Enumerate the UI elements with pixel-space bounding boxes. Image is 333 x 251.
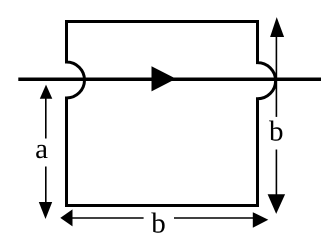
current direction arrowhead [152, 66, 177, 91]
svg-text:b: b [151, 207, 166, 239]
svg-text:a: a [35, 133, 48, 165]
dimension b right line [275, 36, 277, 195]
rectangular loop outline with notches [67, 22, 276, 206]
dimension b right up arrowhead [270, 17, 284, 37]
wire (main horizontal line) [18, 78, 321, 82]
dimension b bottom line [71, 217, 254, 219]
dimension a line [45, 97, 47, 203]
dimension a up arrowhead [40, 85, 53, 99]
svg-text:b: b [269, 116, 284, 148]
dimension b right down arrowhead [268, 194, 286, 214]
dimension a down arrowhead [39, 202, 52, 219]
dimension b bottom right arrowhead [253, 212, 268, 228]
dimension b bottom left arrowhead [60, 209, 72, 226]
